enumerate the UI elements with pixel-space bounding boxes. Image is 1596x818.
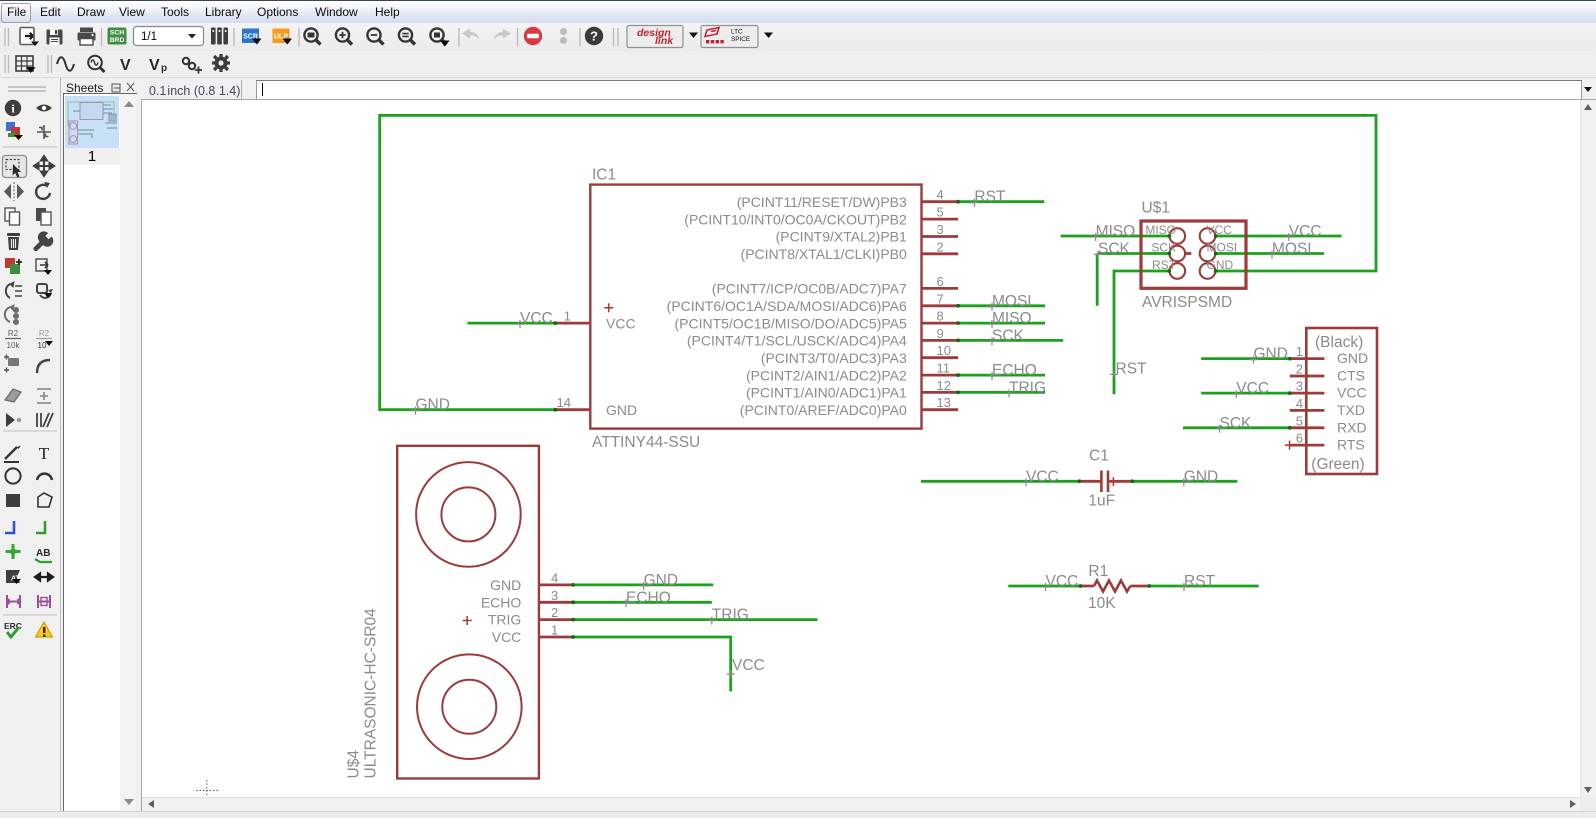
node label SCK	[988, 327, 1025, 345]
row3: sheets header, coords, command line	[0, 78, 1596, 100]
wire net TRIG at IC1 pin12	[958, 391, 1045, 394]
capacitor C1 origin cross	[1109, 477, 1118, 486]
svg-text:ECHO: ECHO	[626, 589, 671, 606]
connector serial header body	[1306, 328, 1377, 474]
wire net ECHO at U$4 pin3	[573, 601, 712, 604]
svg-text:GND: GND	[1337, 350, 1368, 366]
U$1 pads MISO SCK RST / VCC MOSI GND	[1170, 228, 1216, 279]
node label VCC at R1	[1042, 573, 1079, 591]
serial pin labels	[1337, 350, 1368, 453]
miter	[37, 360, 50, 373]
svg-text:7: 7	[937, 291, 944, 306]
svg-text:BRD: BRD	[110, 37, 125, 44]
svg-text:(PCINT4/T1/SCL/USCK/ADC4)PA4: (PCINT4/T1/SCL/USCK/ADC4)PA4	[687, 333, 907, 349]
svg-text:RST: RST	[1184, 573, 1216, 590]
svg-text:3: 3	[551, 588, 558, 603]
svg-text:VCC: VCC	[1026, 468, 1059, 485]
svg-text:ECHO: ECHO	[481, 594, 522, 610]
svg-text:GND: GND	[416, 397, 450, 414]
display layers	[6, 122, 23, 140]
svg-text:SCK: SCK	[1220, 415, 1253, 432]
invoke	[6, 413, 21, 427]
help icon	[585, 27, 603, 45]
wire net VCC at serial pin3	[1201, 392, 1290, 395]
IC1 pins right side	[922, 202, 959, 410]
svg-text:3: 3	[937, 222, 944, 237]
wire net RST from U$1	[1114, 271, 1169, 394]
wire net SCK into U$1	[1097, 254, 1169, 306]
svg-text:(PCINT6/OC1A/SDA/MOSI/ADC6)PA6: (PCINT6/OC1A/SDA/MOSI/ADC6)PA6	[667, 298, 907, 314]
svg-text:ATTINY44-SSU: ATTINY44-SSU	[592, 434, 700, 451]
rect	[6, 494, 20, 507]
svg-text:U$4: U$4	[346, 750, 363, 779]
svg-text:GND: GND	[606, 402, 637, 418]
smash	[4, 355, 19, 373]
capacitor C1 plates	[1101, 471, 1108, 493]
svg-text:4: 4	[551, 570, 558, 585]
add part	[5, 258, 22, 274]
svg-text:(Black): (Black)	[1315, 334, 1363, 351]
attribute	[6, 570, 21, 584]
svg-text:T: T	[39, 444, 50, 463]
errors	[36, 622, 53, 637]
svg-text:V: V	[120, 57, 131, 74]
sensor U$4 ULTRASONIC-HC-SR04 body	[397, 446, 539, 779]
polygon	[38, 493, 52, 507]
node label VCC at C1	[1022, 468, 1059, 486]
node label GND at U$4	[640, 572, 678, 590]
move	[34, 156, 54, 176]
svg-text:MOSI: MOSI	[1272, 241, 1312, 258]
layers icon	[211, 28, 228, 45]
dimension	[7, 595, 20, 608]
wire net RST at IC1 pin4	[958, 200, 1044, 203]
info	[5, 100, 21, 116]
svg-text:2: 2	[937, 239, 944, 254]
svg-text:GND: GND	[1207, 258, 1234, 272]
designlink button	[627, 26, 698, 48]
node label MOSI right of U$1	[1268, 241, 1312, 259]
node label ECHO at U$4	[622, 589, 671, 607]
wire net GND main loop from IC1 pin14 around to U$1 GND pad	[380, 115, 1376, 409]
wire net MOSI from U$1	[1216, 252, 1324, 255]
group (selected)	[3, 156, 27, 178]
svg-text:10: 10	[937, 343, 951, 358]
zoom icons	[304, 28, 446, 44]
wire net SCK at serial pin5	[1183, 426, 1290, 429]
node label VCC right of U$1	[1285, 223, 1322, 241]
svg-text:TRIG: TRIG	[488, 612, 521, 628]
SCR icon	[242, 29, 262, 45]
svg-text:(PCINT5/OC1B/MISO/DO/ADC5)PA5: (PCINT5/OC1B/MISO/DO/ADC5)PA5	[674, 315, 907, 331]
svg-text:10K: 10K	[1088, 595, 1116, 612]
svg-text:ERC: ERC	[4, 621, 22, 631]
svg-text:RTS: RTS	[1337, 437, 1365, 453]
svg-text:R2: R2	[39, 329, 50, 338]
optimize	[37, 389, 51, 403]
svg-text:2: 2	[1296, 362, 1303, 377]
svg-text:AVRISPSMD: AVRISPSMD	[1142, 294, 1232, 311]
svg-text:VCC: VCC	[1046, 573, 1079, 590]
U$4 pins right side	[539, 585, 573, 637]
svg-text:2: 2	[551, 605, 558, 620]
node label GND at serial	[1250, 346, 1288, 364]
svg-text:14: 14	[557, 395, 571, 410]
wire net SCK at IC1 pin9	[958, 339, 1063, 342]
svg-text:1: 1	[551, 623, 558, 638]
toolbars	[0, 23, 1596, 51]
svg-text:10k: 10k	[7, 341, 21, 350]
svg-text:(PCINT0/AREF/ADC0)PA0: (PCINT0/AREF/ADC0)PA0	[740, 402, 907, 418]
svg-text:GND: GND	[490, 577, 521, 593]
svg-text:C1: C1	[1089, 447, 1109, 464]
wrench	[33, 231, 53, 251]
svg-text:5: 5	[1296, 413, 1303, 428]
IC1 ATTINY44-SSU body	[590, 185, 921, 429]
svg-text:R2: R2	[8, 329, 19, 338]
canvas	[141, 99, 1596, 100]
sine icon	[57, 57, 74, 71]
svg-text:VCC: VCC	[606, 315, 636, 331]
node label VCC at IC1 pin1	[516, 310, 553, 328]
wire net VCC at C1	[921, 480, 1079, 483]
svg-text:(PCINT8/XTAL1/CLKI)PB0: (PCINT8/XTAL1/CLKI)PB0	[741, 246, 907, 262]
svg-text:6: 6	[1296, 431, 1303, 446]
wire/line	[4, 446, 21, 463]
wire net RST at R1	[1149, 585, 1258, 588]
svg-text:MISO: MISO	[992, 310, 1032, 327]
serial pin numbers	[1296, 344, 1303, 446]
svg-text:link: link	[655, 35, 674, 47]
wire net ECHO at IC1 pin11	[958, 374, 1045, 377]
stop icon	[524, 27, 542, 45]
svg-text:MOSI: MOSI	[992, 293, 1032, 310]
svg-text:LTC: LTC	[731, 29, 743, 36]
U$4 transducer circle top	[416, 462, 521, 567]
node label MISO at U$1	[1092, 223, 1136, 241]
resistor R1 leads	[1081, 585, 1150, 588]
LTC SPICE button	[701, 26, 773, 48]
junction dots at pin connections	[553, 200, 1291, 639]
replace	[36, 259, 52, 275]
svg-text:MISO: MISO	[1096, 223, 1136, 240]
svg-text:VCC: VCC	[520, 310, 553, 327]
probe icon	[183, 58, 202, 74]
gear icon	[212, 54, 230, 72]
svg-text:RST: RST	[1152, 258, 1177, 272]
svg-text:(PCINT11/RESET/DW)PB3: (PCINT11/RESET/DW)PB3	[737, 194, 907, 210]
wire net GND at serial pin1	[1201, 357, 1290, 360]
svg-text:VCC: VCC	[492, 629, 522, 645]
paste	[36, 208, 51, 225]
sheet combo	[134, 27, 204, 46]
sheet origin mark	[196, 780, 218, 801]
U$4 pin numbers	[551, 570, 558, 637]
bus	[5, 521, 14, 533]
svg-text:TXD: TXD	[1337, 402, 1365, 418]
swap2	[5, 305, 18, 324]
svg-text:VCC: VCC	[1337, 385, 1367, 401]
print icon	[78, 28, 96, 46]
svg-text:MISO: MISO	[1145, 223, 1176, 237]
svg-text:3: 3	[1296, 379, 1303, 394]
capacitor C1 leads	[1079, 480, 1132, 483]
U$1 pad labels	[1145, 223, 1237, 272]
svg-text:VCC: VCC	[1236, 380, 1269, 397]
svg-text:SCK: SCK	[1098, 241, 1131, 258]
node label VCC at U$4	[727, 657, 765, 678]
svg-text:(PCINT1/AIN0/ADC1)PA1: (PCINT1/AIN0/ADC1)PA1	[746, 385, 907, 401]
copy	[5, 208, 20, 225]
value icon	[36, 329, 53, 350]
svg-text:SPICE: SPICE	[731, 36, 750, 43]
svg-text:(PCINT10/INT0/OC0A/CKOUT)PB2: (PCINT10/INT0/OC0A/CKOUT)PB2	[684, 211, 907, 227]
node label TRIG at U$4	[708, 607, 749, 625]
wire net GND at C1	[1132, 480, 1237, 483]
svg-text:12: 12	[937, 378, 951, 393]
node label RST	[970, 189, 1006, 207]
svg-text:VCC: VCC	[1207, 223, 1233, 237]
show/eye	[36, 105, 52, 112]
wire net MISO into U$1	[1061, 235, 1170, 238]
svg-text:SCK: SCK	[992, 327, 1025, 344]
svg-text:(PCINT3/T0/ADC3)PA3: (PCINT3/T0/ADC3)PA3	[761, 350, 907, 366]
arc	[37, 474, 52, 480]
svg-text:ULTRASONIC-HC-SR04: ULTRASONIC-HC-SR04	[363, 608, 380, 779]
node label GND at IC1 pin14	[412, 397, 450, 415]
svg-text:p: p	[161, 63, 167, 74]
freq icon	[88, 56, 104, 72]
menu bar	[0, 0, 1596, 23]
svg-text:1: 1	[1296, 344, 1303, 359]
IC1 pin numbers	[557, 187, 951, 410]
svg-text:VCC: VCC	[732, 657, 765, 674]
svg-text:AB: AB	[36, 548, 50, 559]
node label RST at R1	[1180, 573, 1216, 591]
svg-text:(Green): (Green)	[1311, 456, 1364, 473]
svg-text:8: 8	[937, 309, 944, 324]
serial header pins 1-6	[1290, 359, 1325, 446]
SCH/BRD icon	[108, 28, 127, 45]
junction	[6, 544, 21, 559]
IC1 origin cross	[604, 303, 613, 312]
svg-text:U$1: U$1	[1142, 200, 1170, 217]
array	[37, 413, 53, 427]
wire net GND at U$4 pin4	[573, 584, 713, 587]
svg-text:IC1: IC1	[592, 167, 616, 184]
svg-text:MOSI: MOSI	[1207, 241, 1238, 255]
node label RST at U$1	[1110, 360, 1147, 378]
node label TRIG	[1005, 379, 1046, 397]
svg-text:?: ?	[590, 29, 598, 44]
node label VCC at serial	[1232, 380, 1269, 398]
svg-text:(PCINT7/ICP/OC0B/ADC7)PA7: (PCINT7/ICP/OC0B/ADC7)PA7	[712, 281, 907, 297]
svg-text:4: 4	[1296, 396, 1303, 411]
svg-text:SCH: SCH	[110, 30, 124, 37]
wire net VCC from U$1	[1216, 235, 1342, 238]
svg-text:1: 1	[564, 309, 571, 324]
left sidebar	[0, 78, 60, 818]
wire net VCC at R1	[1008, 585, 1080, 588]
U$1 SCK pad stub	[1185, 252, 1191, 255]
undo/redo (disabled)	[462, 29, 511, 40]
name icon	[5, 329, 21, 350]
svg-text:9: 9	[937, 326, 944, 341]
node label MISO	[988, 310, 1032, 328]
U$4 transducer circle bottom	[417, 654, 522, 759]
wire net VCC stub into IC1 pin1	[468, 322, 556, 325]
svg-text:6: 6	[937, 274, 944, 289]
U$4 origin cross	[463, 616, 472, 625]
wire net TRIG at U$4 pin2	[573, 618, 817, 621]
wire net MOSI at IC1 pin7	[958, 304, 1045, 307]
gateswap	[37, 284, 53, 298]
wire net VCC at U$4 pin1	[573, 637, 731, 691]
rotate	[36, 182, 50, 199]
node label SCK at serial	[1216, 415, 1253, 433]
row2: grid icon	[16, 56, 36, 73]
open icon	[20, 28, 39, 47]
svg-text:CTS: CTS	[1337, 368, 1365, 384]
dimension2	[38, 595, 50, 608]
wire net MISO at IC1 pin8	[958, 322, 1045, 325]
svg-text:4: 4	[937, 187, 944, 202]
svg-text:ECHO: ECHO	[992, 362, 1037, 379]
svg-text:(PCINT9/XTAL2)PB1: (PCINT9/XTAL2)PB1	[776, 229, 907, 245]
svg-text:TRIG: TRIG	[1009, 379, 1046, 396]
svg-text:GND: GND	[644, 572, 678, 589]
save icon	[47, 30, 63, 45]
connector U$1 AVRISPSMD body	[1141, 221, 1246, 288]
scrollbars	[1580, 100, 1596, 797]
split	[5, 389, 21, 402]
circle	[5, 468, 20, 483]
width	[35, 574, 53, 581]
svg-text:5: 5	[937, 205, 944, 220]
svg-text:GND: GND	[1184, 468, 1218, 485]
svg-text:1uF: 1uF	[1088, 492, 1115, 509]
U$4 pin labels	[481, 577, 522, 645]
svg-text:10: 10	[38, 341, 47, 350]
serial header origin cross	[1285, 441, 1294, 450]
svg-text:SCK: SCK	[1151, 241, 1176, 255]
svg-text:11: 11	[937, 361, 951, 376]
pinswap	[6, 282, 22, 298]
svg-text:RST: RST	[974, 189, 1006, 206]
resistor R1 zigzag	[1094, 581, 1130, 592]
delete	[7, 233, 20, 250]
label	[35, 548, 52, 562]
ULP icon	[273, 29, 293, 45]
mirror	[4, 182, 24, 201]
net	[36, 521, 45, 533]
svg-text:RXD: RXD	[1337, 419, 1367, 435]
svg-text:RST: RST	[1116, 360, 1148, 377]
svg-text:1/1: 1/1	[141, 31, 157, 43]
IC1 pin labels	[606, 194, 907, 418]
run dots	[560, 28, 567, 35]
svg-text:13: 13	[937, 395, 951, 410]
svg-text:TRIG: TRIG	[712, 607, 749, 624]
node label MOSI	[988, 293, 1032, 311]
IC1 pins left side (pin 1 VCC, pin 14 GND)	[555, 323, 590, 410]
svg-text:GND: GND	[1254, 346, 1288, 363]
ERC	[4, 621, 22, 637]
svg-text:(PCINT2/AIN1/ADC2)PA2: (PCINT2/AIN1/ADC2)PA2	[746, 367, 907, 383]
svg-text:V: V	[149, 57, 160, 74]
svg-text:R1: R1	[1088, 563, 1108, 580]
sheets panel	[61, 78, 142, 818]
mark	[37, 125, 51, 139]
svg-text:VCC: VCC	[1289, 223, 1322, 240]
node label GND at C1	[1180, 468, 1218, 486]
node label ECHO	[988, 362, 1037, 380]
node label SCK at U$1	[1094, 241, 1131, 259]
